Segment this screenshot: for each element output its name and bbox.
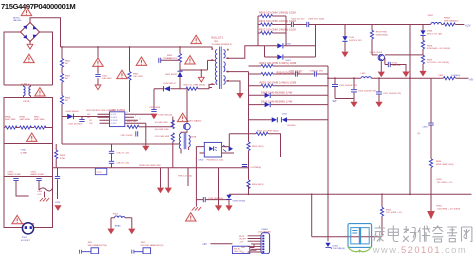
Y-cap box [4,177,53,228]
svg-text:D903 FR107: D903 FR107 [165,74,178,76]
svg-text:J902: J902 [141,242,147,244]
svg-text:PS2561DL1-1(S): PS2561DL1-1(S) [207,159,224,161]
wire branch y=54.9 to regulator chain [385,55,423,72]
wire T901 secondary return to ground arrow [226,81,240,93]
capacitor C913 [109,161,114,163]
svg-text:R913 4.7K(S): R913 4.7K(S) [179,175,193,177]
svg-text:10K 1/2W: 10K 1/2W [133,76,144,78]
svg-text:+12V: +12V [239,241,244,243]
zener D913 [422,25,424,71]
zener D909 [226,195,231,199]
svg-text:SMD 330K: SMD 330K [34,119,45,121]
wire secondary ground drops from LV rail [161,168,189,188]
svg-text:R917 P906: R917 P906 [376,32,388,34]
diode D904 [62,116,110,118]
svg-text:L902: L902 [361,73,367,75]
IC U901 PWM controller [110,112,125,127]
svg-text:C907 47U/50V: C907 47U/50V [68,123,83,125]
transformer T901 aux winding [179,134,181,149]
resistor R915 [247,142,250,151]
svg-text:F902: F902 [428,15,434,17]
svg-text:C917 1000UF 25V: C917 1000UF 25V [383,93,402,95]
transformer T901 [211,38,232,89]
svg-text:SOCKET BRACKET(S): SOCKET BRACKET(S) [141,244,164,247]
ground arrow under C910 [54,205,61,211]
watermark hanzi glyph 5 [432,226,443,243]
wire bottom reference rail y=236.7 [312,236,382,238]
wire long vertical x=410 [409,25,411,195]
ground arrow x=168.3 [165,188,172,194]
diode D906 [258,45,316,47]
resistor R903C in box [34,126,46,129]
svg-text:J901: J901 [88,242,94,244]
svg-text:RBV406: RBV406 [13,20,22,22]
svg-text:RI SENSE: RI SENSE [111,120,118,122]
svg-text:C916 1000UF 25V: C916 1000UF 25V [358,91,377,93]
capacitor C909 [293,24,306,26]
svg-text:R912 0.1-OHM 2W(S): R912 0.1-OHM 2W(S) [184,84,206,86]
svg-text:0.47/5B(S): 0.47/5B(S) [251,167,262,169]
wire T901 secondary pin to rectifier row A [226,46,258,59]
warning triangle top-left [21,7,32,15]
svg-text:C916: C916 [349,37,355,39]
wire bleeder chain x=62 [61,47,63,144]
svg-text:SW: SW [333,100,338,103]
IC U903B protection box [232,246,249,253]
svg-text:+12V: +12V [465,24,471,27]
ground hollow arrow snubber [198,77,204,82]
svg-text:7: 7 [135,115,136,117]
svg-text:R916 4K(S): R916 4K(S) [252,184,264,186]
warning triangle mid input [117,70,128,78]
wire secondary return rail y=194.3 [229,193,472,195]
resistor R906 [60,96,63,105]
warning triangle bottom middle [186,213,197,221]
svg-text:CS4: CS4 [89,123,93,125]
wire bridge right to AC loop right [40,32,53,85]
svg-text:MMKP-X2/AC: MMKP-X2/AC [31,173,45,176]
wire Q901 source to aux winding [181,130,187,133]
svg-text:R90C: R90C [34,117,40,119]
X-cap box 2 [4,144,53,177]
svg-text:C906: C906 [21,150,27,152]
svg-text:C903: C903 [8,171,14,173]
wire diode block right rail to +12V rail [315,25,317,58]
ground arrow U901 GND pin [145,123,147,146]
svg-text:1K 10/16 +-5% 10K(S): 1K 10/16 +-5% 10K(S) [427,62,449,64]
svg-text:0R33/1W(S): 0R33/1W(S) [376,34,388,36]
ground arrow x=423 [419,71,426,77]
capacitor C916B [353,78,355,102]
capacitor C912 [109,151,114,153]
svg-text:R909: R909 [60,155,66,157]
svg-text:MTZJ-T77 10B: MTZJ-T77 10B [427,33,442,35]
svg-text:R911 20K: R911 20K [127,121,137,123]
svg-text:F901: F901 [38,191,44,193]
wire AC loop bottom edge [4,84,53,86]
svg-text:C901: C901 [102,76,108,78]
warning triangle above transformer [191,35,202,43]
wire Q904 emitter to SW rail [380,61,382,71]
resistor R923B [429,159,432,168]
wire snubber to earth [180,70,208,77]
optocoupler phototransistor side [223,145,226,152]
svg-text:Q-PAK: Q-PAK [21,151,28,154]
resistor R907B gate [127,125,139,128]
svg-text:C910 2G 1KV: C910 2G 1KV [291,19,305,21]
svg-text:T901B: T901B [190,137,197,139]
wire bridge minus stub [29,42,31,45]
svg-text:D906: D906 [286,44,292,46]
svg-text:C915 1000UF 25V: C915 1000UF 25V [339,85,358,87]
capacitor C910B stub left column [56,144,57,199]
capacitor C902 snubber [159,58,161,63]
svg-text:R905: R905 [133,74,139,76]
ground arrow F903 left [107,229,114,235]
svg-text:(S): (S) [417,133,420,135]
svg-text:RI3: RI3 [89,120,92,122]
svg-text:U901 SG6841: U901 SG6841 [111,110,126,112]
ground arrow F903 right [128,229,135,235]
warning triangle left of transformer [185,56,196,64]
svg-text:NC: NC [65,63,69,65]
warning triangle below bridge [24,54,35,62]
svg-text:ON/OFF: ON/OFF [239,239,247,241]
warning triangle right of R905 [136,57,147,65]
svg-text:C904: C904 [31,171,37,173]
resistor R917 [371,25,373,55]
wire bridge top to HV rail [30,18,61,47]
watermark hanzi glyph 2 [388,226,398,242]
ground arrow x=406 [402,72,409,78]
svg-text:POWER-XFMR(S,P): POWER-XFMR(S,P) [212,44,232,46]
svg-text:NC: NC [65,100,69,102]
svg-text:D911: D911 [282,114,288,116]
capacitor C905 and sense diode cluster [153,89,155,110]
wire top block rails [258,16,286,46]
optocoupler U902 [204,142,221,157]
svg-text:L901B: L901B [23,101,30,103]
wire U903B to CN901 stubs [250,244,261,250]
svg-text:R915 1K(S): R915 1K(S) [252,146,264,148]
wire U901 left pins [98,114,110,123]
svg-text:GND: GND [241,247,246,249]
snubber R903 [179,47,181,89]
svg-text:+5V: +5V [469,78,474,81]
wire F903 legs [111,218,132,229]
watermark hanzi glyph 3 [403,226,417,242]
svg-text:FLP: FLP [38,194,43,196]
svg-text:Q901 10A60D: Q901 10A60D [188,119,202,122]
ground arrow under D909 [228,200,230,206]
wire opto LED pins [196,147,204,200]
svg-text:SMD BEAD(S): SMD BEAD(S) [444,19,459,22]
svg-text:C908 2G 1KV: C908 2G 1KV [310,71,324,73]
svg-text:C911 2200P: C911 2200P [121,135,134,137]
svg-text:100-OHM 1/4W: 100-OHM 1/4W [155,129,169,131]
svg-text:SOCKET: SOCKET [21,240,31,242]
node HV rail junctions [61,46,181,48]
capacitor C917 [378,78,380,102]
svg-text:TKC 4K99 +-1%: TKC 4K99 +-1% [386,212,402,214]
svg-text:U903: U903 [333,245,339,247]
ground hollow arrow under C901 [95,85,101,90]
resistor R902 [60,74,63,83]
AC socket P901 [21,223,34,242]
svg-text:SE1 R1: SE1 R1 [234,248,240,250]
watermark logo swoosh [348,247,372,252]
svg-text:C918: C918 [422,126,428,128]
svg-text:1K-OHM 1/4W: 1K-OHM 1/4W [155,122,168,124]
wire divider chain x=431 [430,78,432,211]
svg-text:8: 8 [127,112,128,114]
svg-text:MUTE: MUTE [239,236,245,238]
svg-text:R906: R906 [65,98,71,100]
svg-text:D904 1N4007: D904 1N4007 [66,111,80,113]
svg-text:SELF BRACKET(S): SELF BRACKET(S) [88,244,108,247]
svg-text:C902 2N2/1KV: C902 2N2/1KV [163,58,178,60]
wire T901 pin2 stub [208,60,215,70]
resistor R919 [421,55,424,64]
wire U901 right pins [125,114,154,123]
resistor R904 [186,87,198,90]
watermark hanzi glyph 6 [447,227,457,242]
svg-text:C913 TL 100: C913 TL 100 [117,163,130,165]
resistor R921B lower divider [381,194,383,236]
ground arrow under D915 [341,52,348,58]
wire R905 branch x=129.5 [129,47,131,112]
zener D915 [344,25,346,52]
svg-text:D905 1N4148: D905 1N4148 [159,115,173,117]
svg-text:4700OHM +-5% 10K(S): 4700OHM +-5% 10K(S) [427,48,450,50]
svg-text:R922: R922 [437,206,443,208]
svg-text:D902 FR107: D902 FR107 [164,83,177,85]
row R924 [261,72,273,75]
svg-text:www.520101.com: www.520101.com [372,244,467,254]
connector CT901 small box [95,168,107,174]
svg-text:R908 100-OHM 1/4W: R908 100-OHM 1/4W [140,165,162,167]
svg-text:MMKP-X2/AC: MMKP-X2/AC [8,173,22,176]
svg-text:715G4497P04000001M: 715G4497P04000001M [1,2,75,11]
capacitor C915 [335,78,354,98]
svg-text:C912 TL 100: C912 TL 100 [117,153,130,155]
svg-text:TL431(M)(S): TL431(M)(S) [333,248,346,250]
resistor R901 [60,59,63,68]
wire main secondary vertical x=328 [327,66,329,241]
svg-text:SMD 330K: SMD 330K [20,119,31,121]
diode D907 [265,46,316,57]
svg-text:Q904 C3203: Q904 C3203 [370,52,383,54]
earth ground in Y-cap box [44,192,46,198]
svg-text:TKC 4K99 +-1%: TKC 4K99 +-1% [437,182,453,184]
EMI filter box (X-cap section) [4,98,53,144]
shunt regulator U903 TL431 [325,243,330,247]
wire aux rail y=144 [62,143,180,145]
svg-text:F901: F901 [439,75,445,77]
resistor R905 [128,72,131,81]
svg-text:R920: R920 [437,179,443,181]
svg-text:10N 400V: 10N 400V [102,78,112,80]
svg-text:CN901: CN901 [261,229,269,231]
svg-text:R920: R920 [436,161,442,163]
svg-text:SMD 330K: SMD 330K [5,119,16,121]
warning triangle right of choke [35,88,46,96]
svg-text:C907 2G 1KV: C907 2G 1KV [289,71,303,73]
wire T901 secondary pin to feedback column [226,71,248,73]
wire bleeder resistor row [4,127,53,129]
MOSFET Q901 [177,113,188,121]
wire Vcc sense drop x=218.5 [218,168,220,206]
svg-text:o L901 o: o L901 o [21,84,30,86]
wire opto collector up to R914 line [222,134,234,153]
ground arrow x=218.5 [215,205,222,211]
svg-text:T901: T901 [214,41,220,43]
wire HV rail y=47 [61,47,213,49]
capacitor C908 [314,71,316,76]
svg-text:R921: R921 [386,209,392,211]
capacitor C907 [79,120,84,122]
earth ground left of C919 [195,200,197,207]
bridge rectifier BD901 [20,22,41,43]
capacitor C907B [295,71,297,76]
capacitor C910 [291,22,293,27]
wire SW rail y=78.2 [328,77,442,79]
svg-text:R903: R903 [167,55,173,57]
resistor R910 [171,120,174,129]
ground arrow x=160.5 [157,188,164,194]
svg-text:+5V: +5V [202,243,207,246]
svg-text:HV VDD: HV VDD [111,114,118,116]
resistor R918 [421,40,424,49]
svg-text:9011L117-1: 9011L117-1 [211,38,224,40]
svg-text:F903: F903 [113,214,119,216]
capacitor C918 on feedback divider [428,123,433,125]
common mode choke L901 [21,84,31,98]
warning triangle near socket [12,215,23,223]
gate drive chain x=172.8 [145,117,173,168]
wire drop x=311.7 [311,194,313,236]
svg-text:R902: R902 [65,76,71,78]
ground hollow arrow under bridge [27,44,33,49]
svg-text:102/1KV 1KV: 102/1KV 1KV [349,40,363,42]
svg-text:1,000OHM +-1% 10K(S): 1,000OHM +-1% 10K(S) [437,208,461,210]
resistor R903B in box [20,126,32,129]
feedback column x=248.5 [248,72,250,195]
svg-text:C909 1KV 102M: C909 1KV 102M [308,19,324,21]
svg-text:FUSE(S): FUSE(S) [452,75,461,77]
warning triangle on C901 branch [93,58,104,66]
wire CN901 pin stubs [248,236,261,252]
watermark logo box [348,224,372,248]
svg-text:RS1060: RS1060 [288,125,297,127]
svg-text:FB2: FB2 [87,117,90,119]
svg-text:HV1: HV1 [87,114,91,116]
svg-text:C905 10NF: C905 10NF [149,107,161,109]
resistor R909 470K [55,150,58,159]
svg-text:FB901: FB901 [444,18,451,20]
diode D902 [154,88,212,89]
wire 12V filter drops x=315.5 [315,25,317,58]
watermark logo open book [351,227,369,245]
wire C901 branch x=98 [97,47,99,85]
svg-text:D909 18V(S): D909 18V(S) [233,201,246,203]
svg-text:RT GND: RT GND [111,123,118,125]
wire +12V rail y=24.5 [309,24,431,26]
svg-text:U902: U902 [198,159,204,161]
capacitor C905B [55,176,60,178]
capacitor C914 [388,62,390,67]
watermark hanzi glyph 4 [418,226,430,243]
svg-text:470K: 470K [60,158,66,160]
svg-text:C910: C910 [55,202,61,204]
wire C912/C913 column [111,144,113,168]
svg-text:R919: R919 [427,59,433,61]
resistor R903A in box [5,126,17,129]
warning triangle in box [27,133,38,141]
svg-text:R901: R901 [65,61,71,63]
capacitor C912B [242,165,247,167]
svg-text:4K99 OHM 1%(S): 4K99 OHM 1%(S) [436,164,454,166]
svg-text:NC: NC [65,78,69,80]
diode D903 [177,72,182,77]
svg-text:4.7K-OHM 1/4W: 4.7K-OHM 1/4W [155,136,170,138]
svg-text:P901: P901 [22,237,28,239]
ground arrow big x=431 [427,211,435,219]
resistor R916 [247,180,250,189]
svg-text:6: 6 [140,119,141,121]
svg-text:D908: D908 [427,31,433,33]
watermark hanzi glyph 7 [462,227,472,242]
wire bridge left to AC loop left [4,32,21,85]
svg-text:R918: R918 [427,45,433,47]
watermark hanzi glyph 1 [374,226,385,242]
capacitor C901 [95,75,100,77]
resistor R911 [171,133,174,142]
svg-text:R90B: R90B [20,117,26,119]
svg-text:R90A: R90A [5,116,11,119]
wire T901 bottom-left pin [209,84,215,88]
svg-text:BEAD: BEAD [115,224,121,227]
wire LV rail y=167.8 [53,167,249,169]
